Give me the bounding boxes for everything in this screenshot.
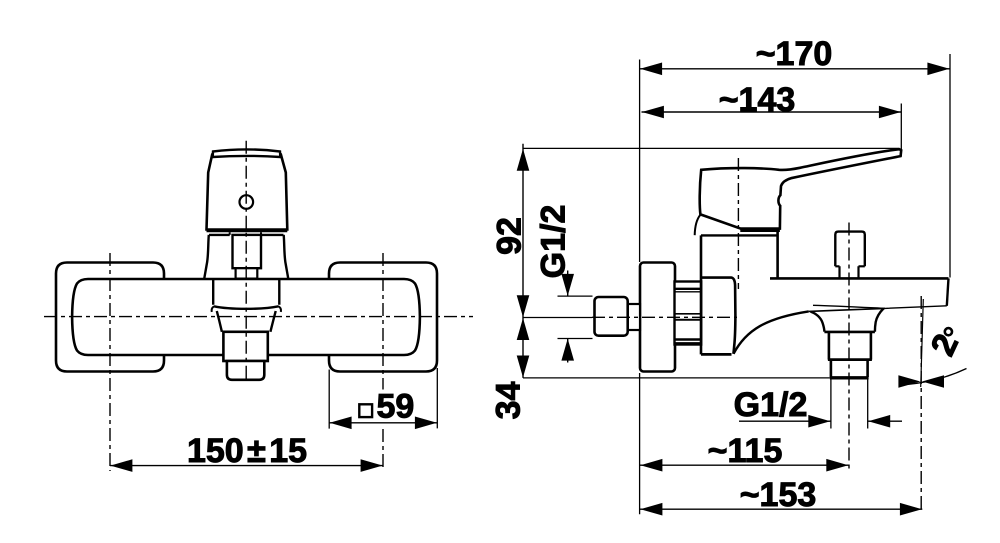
aerator sides <box>831 360 868 377</box>
housing left edge <box>700 235 703 354</box>
dim 115 arrowheads <box>640 459 662 472</box>
wall plate left (square escutcheon) <box>56 263 164 372</box>
dim 59 extension lines <box>329 368 437 429</box>
centerline outlet/knob <box>848 223 850 471</box>
cartridge neck rectangle <box>233 235 262 268</box>
2deg reference dashed line <box>920 296 922 512</box>
2deg arrowheads <box>898 375 920 388</box>
handle body (front) <box>207 154 288 230</box>
bell escutcheon sides <box>204 235 288 279</box>
ext line 34 bottom <box>523 377 868 379</box>
dim 34 arrowheads <box>517 318 530 340</box>
mixer body (horizontal) <box>72 279 420 355</box>
spout collar corner curls <box>212 306 281 312</box>
dim 115 line <box>640 464 849 466</box>
body slab right edge <box>947 278 949 305</box>
handle bottom heavy edge <box>207 229 288 232</box>
centerline cartridge (right view) <box>737 158 739 289</box>
wall extension line lower <box>639 373 641 514</box>
ext line centerline stub <box>523 317 592 319</box>
dim 92-34 vertical line <box>522 144 524 378</box>
svg-text:150 ± 15: 150 ± 15 <box>187 432 307 470</box>
centerline horizontal (left view) <box>44 316 473 318</box>
handle lever <box>700 149 902 228</box>
spout saddle right branch <box>875 309 884 332</box>
G1/2 upper extension lines <box>558 296 593 338</box>
centerline vertical main (left view) <box>245 141 247 382</box>
dim 170 arrowheads <box>640 63 662 76</box>
svg-text:~170: ~170 <box>756 35 833 73</box>
shower hose nut <box>595 297 628 336</box>
body slab top edge <box>770 277 949 280</box>
handle cap <box>213 149 281 157</box>
svg-text:~153: ~153 <box>740 476 817 514</box>
housing top edge <box>701 234 778 236</box>
G1/2 upper arrow lines <box>567 271 569 363</box>
body slab underside <box>813 305 947 308</box>
union ring lines <box>675 288 702 290</box>
dim 143 right extension <box>900 104 902 157</box>
dim 59 arrowheads <box>330 417 352 430</box>
centerline horizontal (right view) <box>592 316 737 318</box>
centerline left plate <box>109 253 111 471</box>
svg-text:G1/2: G1/2 <box>535 205 573 279</box>
bell escutcheon top lines <box>209 234 284 236</box>
knob neck <box>840 266 859 278</box>
cartridge neck lower rectangle <box>236 268 258 278</box>
wall extension line upper <box>639 60 641 263</box>
union rings between plate and body <box>675 282 702 345</box>
spout top far edge <box>809 308 885 311</box>
dim 170 line <box>640 68 950 70</box>
spout mid block <box>223 332 267 361</box>
spout aerator <box>227 361 264 380</box>
dim 92 arrowheads <box>517 149 530 171</box>
dim 143 arrowheads <box>642 106 664 119</box>
outlet nut top edge <box>824 331 875 334</box>
dim 59 line <box>329 422 437 424</box>
2deg arc <box>903 369 967 385</box>
svg-text:92: 92 <box>491 217 529 255</box>
svg-text:34: 34 <box>490 382 528 420</box>
2deg degree ring <box>945 328 952 335</box>
valve body block bottom edge <box>701 353 732 356</box>
G1/2 upper arrowheads <box>561 274 574 296</box>
aerator extension lines <box>831 379 868 429</box>
shower outlet stub <box>628 304 640 330</box>
spout upper section sides <box>213 280 279 305</box>
cap arc left of handle skirt <box>695 215 701 235</box>
aerator bottom heavy edge <box>830 376 869 379</box>
spout taper sides <box>217 311 276 332</box>
dim 143 line <box>642 111 902 113</box>
dim 59 square symbol <box>359 404 372 417</box>
dim 150 arrowheads <box>110 459 132 472</box>
dim 153 arrowheads <box>640 503 662 516</box>
ext line 92 top <box>523 147 899 149</box>
centerline right plate <box>382 253 384 471</box>
outlet nut sides <box>829 332 871 360</box>
spout collar arc <box>214 306 279 309</box>
wall plate right (square escutcheon) <box>329 263 437 372</box>
cartridge neck sliver <box>230 232 261 235</box>
diverter knob <box>835 232 865 267</box>
knob bottom shoulders <box>835 265 865 267</box>
spout saddle left branch <box>811 312 825 332</box>
dim 150 line <box>110 465 383 467</box>
svg-text:59: 59 <box>377 388 415 426</box>
2deg tilted line <box>921 299 924 387</box>
housing right edge <box>776 232 779 278</box>
svg-text:~115: ~115 <box>708 432 783 470</box>
svg-text:~143: ~143 <box>719 81 796 119</box>
handle screw hole <box>240 195 254 209</box>
dim G1/2 bottom lines <box>739 420 902 422</box>
dim G1/2 bottom arrowheads <box>808 415 830 428</box>
outlet nut bottom step <box>828 358 872 361</box>
valve body block <box>701 278 735 354</box>
handle bottom heavy edge <box>740 229 780 232</box>
dim 170 right extension <box>949 54 951 278</box>
spout wave curve <box>734 311 809 353</box>
wall plate (side) <box>640 263 675 372</box>
union heavy base band <box>675 342 702 345</box>
dim 153 line <box>640 508 922 510</box>
svg-text:G1/2: G1/2 <box>734 386 808 424</box>
